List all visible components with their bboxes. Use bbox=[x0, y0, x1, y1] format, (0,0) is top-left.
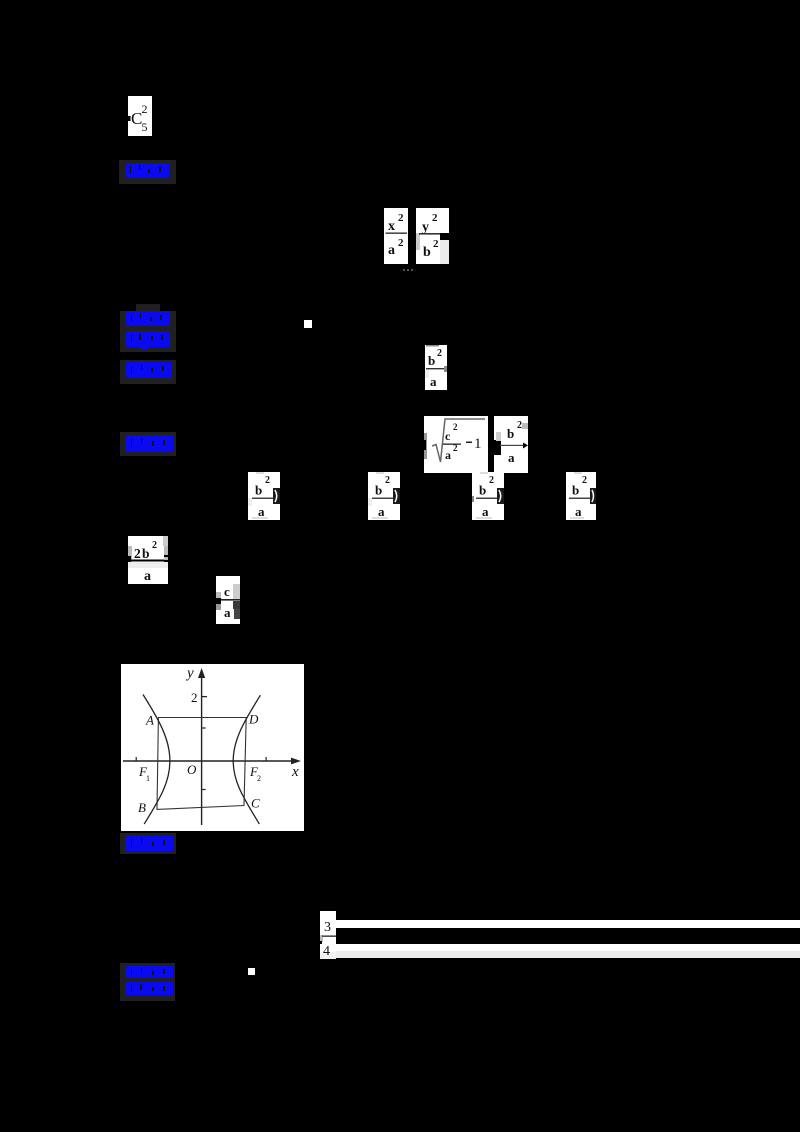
svg-text:2: 2 bbox=[433, 238, 439, 250]
svg-text:b: b bbox=[142, 546, 150, 561]
svg-text:b: b bbox=[572, 483, 579, 498]
svg-text:2: 2 bbox=[191, 690, 198, 705]
svg-text:a: a bbox=[445, 448, 451, 462]
white square marker 1 bbox=[304, 320, 312, 328]
blue link 2a bbox=[126, 311, 170, 326]
svg-text:b: b bbox=[428, 353, 435, 368]
link panel 1 bbox=[119, 160, 176, 184]
svg-text:2: 2 bbox=[582, 475, 587, 486]
svg-text:y: y bbox=[422, 220, 429, 235]
formula image y^2/b^2 bbox=[416, 208, 449, 264]
white highlight bar 1 bbox=[336, 920, 800, 928]
svg-text:c: c bbox=[224, 584, 230, 599]
link panel 5 bbox=[120, 833, 176, 854]
svg-text:2: 2 bbox=[398, 237, 404, 249]
svg-text:D: D bbox=[248, 712, 259, 727]
svg-text:c: c bbox=[445, 429, 451, 443]
svg-text:a: a bbox=[388, 243, 395, 258]
svg-text:a: a bbox=[430, 374, 437, 389]
formula image c/a bbox=[216, 576, 240, 624]
link panel 4 bbox=[120, 432, 176, 456]
svg-text:b: b bbox=[479, 483, 486, 498]
tick y=-1 bbox=[202, 789, 206, 791]
tick y=2 bbox=[202, 696, 207, 698]
svg-text:2: 2 bbox=[398, 212, 404, 224]
svg-text:x: x bbox=[388, 219, 395, 234]
svg-text:2: 2 bbox=[517, 420, 522, 431]
svg-text:y: y bbox=[185, 666, 194, 682]
blue link 6a bbox=[126, 966, 173, 978]
ellipsis dots bbox=[403, 268, 415, 272]
svg-text:3: 3 bbox=[324, 920, 331, 935]
blue link 1 bbox=[126, 163, 169, 178]
svg-text:a: a bbox=[258, 504, 265, 519]
svg-text:A: A bbox=[145, 713, 154, 728]
hyperbola left branch bbox=[143, 695, 170, 825]
tick y=1 bbox=[202, 727, 206, 729]
svg-text:2: 2 bbox=[453, 422, 458, 432]
svg-text:5: 5 bbox=[142, 120, 148, 134]
svg-text:b: b bbox=[255, 483, 262, 498]
blue link 6b bbox=[126, 982, 173, 995]
formula image b^2/a (after equals, with arrow) bbox=[494, 416, 528, 473]
svg-text:2: 2 bbox=[265, 475, 270, 486]
svg-text:2: 2 bbox=[142, 102, 148, 116]
svg-text:1: 1 bbox=[474, 436, 482, 452]
svg-text:2: 2 bbox=[152, 540, 157, 551]
blue link 3 bbox=[126, 362, 172, 378]
svg-text:a: a bbox=[575, 504, 582, 519]
svg-text:b: b bbox=[507, 426, 514, 441]
svg-text:a: a bbox=[378, 504, 385, 519]
graph image (hyperbola with rectangle ABCD) bbox=[121, 664, 304, 831]
svg-text:2: 2 bbox=[134, 546, 141, 561]
gray highlight bar 3 bbox=[336, 951, 800, 958]
svg-text:2: 2 bbox=[385, 475, 390, 486]
svg-text:2: 2 bbox=[489, 475, 494, 486]
formula image 2b^2/a bbox=[128, 536, 168, 584]
svg-text:2: 2 bbox=[453, 443, 458, 453]
tick x right bbox=[265, 757, 267, 761]
formula image sqrt(c^2/a^2 - 1) bbox=[424, 416, 488, 473]
svg-text:1: 1 bbox=[146, 774, 150, 783]
svg-text:a: a bbox=[224, 605, 231, 620]
formula image b^2/a (inline, first) bbox=[425, 345, 447, 390]
blue link 4 bbox=[126, 435, 173, 452]
formula image b^2/a (row patch 2) bbox=[368, 472, 400, 520]
svg-text:a: a bbox=[144, 569, 151, 584]
formula image C_5^2 bbox=[128, 96, 152, 136]
svg-text:b: b bbox=[375, 483, 382, 498]
link panel 2 (two lines) with top tab bbox=[136, 304, 160, 312]
x-axis bbox=[123, 760, 294, 762]
svg-text:B: B bbox=[138, 800, 146, 815]
formula image b^2/a (row patch 3) bbox=[472, 472, 504, 520]
tick x left bbox=[135, 757, 137, 761]
svg-text:x: x bbox=[291, 764, 299, 780]
svg-text:2: 2 bbox=[432, 212, 438, 224]
link panel 3 bbox=[120, 360, 176, 384]
svg-text:2: 2 bbox=[257, 774, 261, 783]
svg-text:b: b bbox=[423, 245, 431, 260]
svg-text:a: a bbox=[508, 450, 515, 465]
hyperbola right branch bbox=[233, 695, 260, 824]
formula image b^2/a (row patch 1) bbox=[248, 472, 280, 520]
white highlight bar 2 bbox=[336, 944, 800, 951]
formula image x^2/a^2 bbox=[384, 208, 408, 264]
blue link 2b bbox=[126, 331, 170, 350]
svg-text:4: 4 bbox=[323, 944, 330, 959]
blue link 5 bbox=[126, 836, 173, 851]
svg-text:a: a bbox=[482, 504, 489, 519]
svg-text:C: C bbox=[251, 796, 260, 811]
rectangle ABDC bbox=[157, 718, 246, 810]
svg-text:2: 2 bbox=[437, 348, 442, 359]
svg-text:O: O bbox=[187, 762, 197, 777]
formula image b^2/a (row patch 4) bbox=[566, 472, 596, 520]
link panel 6 (two lines) bbox=[120, 963, 175, 1001]
y-axis bbox=[201, 675, 203, 825]
white square marker 2 bbox=[248, 968, 255, 975]
formula image 3/4 bbox=[320, 911, 336, 959]
